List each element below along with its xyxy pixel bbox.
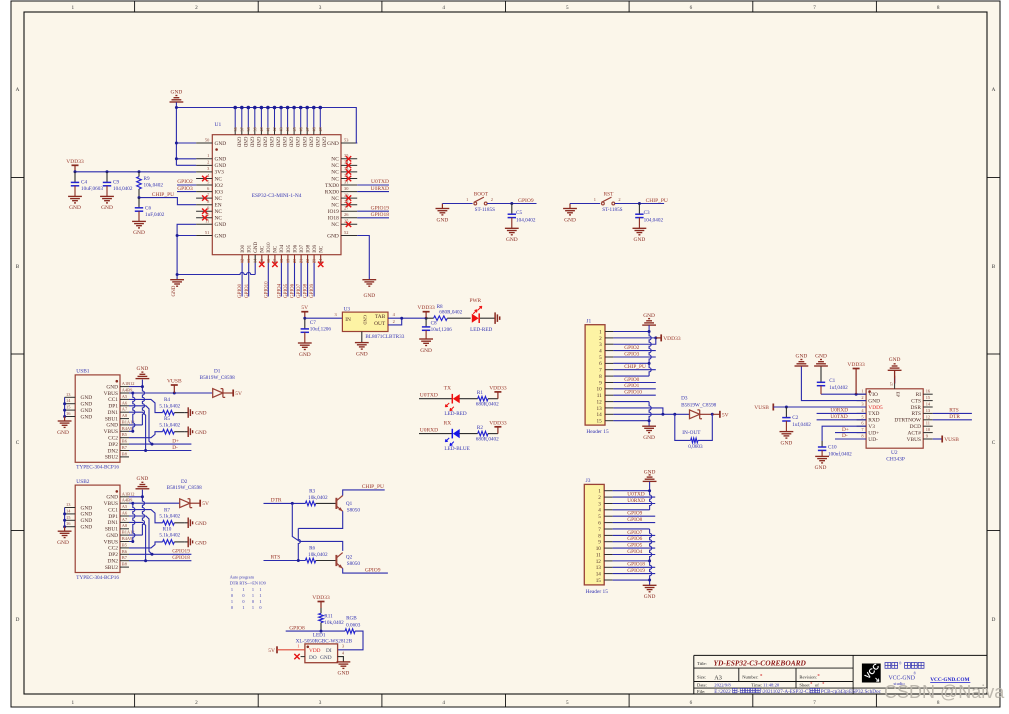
resistor RGB [345, 629, 355, 634]
svg-text:1: 1 [72, 5, 75, 11]
net label GPIO4 wire at J3 [613, 554, 656, 556]
svg-text:31: 31 [344, 179, 348, 184]
svg-text:RI: RI [916, 392, 922, 398]
ground C9 [106, 195, 108, 197]
svg-text:6: 6 [599, 361, 602, 367]
svg-text:12: 12 [596, 559, 602, 565]
svg-text:GND: GND [215, 163, 227, 169]
net label GPIO18 wire at J3 [613, 566, 656, 568]
svg-text:*: * [760, 674, 763, 680]
svg-text:GND: GND [363, 293, 375, 299]
svg-text:0: 0 [231, 605, 233, 610]
svg-text:GND: GND [643, 435, 655, 441]
svg-text:A5: A5 [122, 504, 128, 509]
svg-text:VDD: VDD [309, 648, 321, 654]
svg-text:B5819W_C8598: B5819W_C8598 [167, 485, 203, 491]
svg-text:GPIO6: GPIO6 [627, 536, 642, 542]
net label GPIO1 wire at J1 [613, 388, 655, 390]
ground USB2 left [64, 527, 66, 532]
svg-text:VDD33: VDD33 [489, 420, 507, 426]
J1 pins [605, 331, 613, 333]
svg-text:GPIO0: GPIO0 [238, 283, 243, 298]
svg-text:SBU1: SBU1 [105, 527, 118, 533]
svg-text:File:: File: [697, 689, 705, 694]
svg-text:10k,0402: 10k,0402 [308, 552, 328, 558]
svg-text:5.1k,0402: 5.1k,0402 [159, 514, 180, 520]
diode D3 B5819W_C8598 [690, 410, 700, 419]
svg-text:E:\2022: E:\2022 [714, 689, 731, 695]
svg-text:CC1: CC1 [108, 507, 118, 513]
svg-text:GPIO2: GPIO2 [624, 345, 639, 351]
svg-text:GND: GND [242, 137, 247, 148]
svg-text:B6: B6 [122, 439, 128, 444]
svg-text:R7: R7 [164, 507, 170, 513]
wire J1 GND rail top [649, 325, 651, 376]
svg-text:U0RXD: U0RXD [627, 498, 645, 504]
svg-text:GND: GND [327, 141, 339, 147]
switch RST ST-1185S [570, 203, 600, 205]
svg-text:10uf,1206: 10uf,1206 [431, 326, 453, 333]
svg-text:*: * [817, 674, 820, 680]
svg-text:2: 2 [618, 197, 620, 202]
svg-text:VUSB: VUSB [167, 379, 182, 385]
LED PWR LED-RED [447, 317, 470, 319]
svg-text:GPIO10: GPIO10 [624, 390, 642, 396]
svg-text:-: - [738, 689, 740, 695]
ground flag R4 [184, 412, 188, 414]
svg-text:GPIO8: GPIO8 [627, 517, 642, 523]
svg-text:40: 40 [259, 127, 264, 131]
svg-text:D-: D- [172, 445, 178, 451]
svg-text:GND: GND [281, 137, 286, 148]
svg-text:8: 8 [598, 533, 601, 539]
LED TX LED-RED [453, 394, 460, 403]
net label GPIO8 wire [286, 630, 345, 632]
svg-text:GPIO6: GPIO6 [291, 283, 296, 298]
ruler column ticks and numbers [134, 1, 136, 12]
svg-text:GPIO19: GPIO19 [371, 205, 390, 211]
svg-text:1: 1 [259, 587, 261, 592]
svg-text:GND: GND [781, 440, 793, 446]
svg-text:D-: D- [842, 433, 848, 439]
svg-text:GPIO19: GPIO19 [627, 568, 645, 574]
svg-text:DN1: DN1 [108, 410, 119, 416]
svg-text:GND: GND [320, 655, 332, 661]
wire U2 GND pin2 [801, 366, 866, 401]
svg-text:NC: NC [215, 216, 223, 222]
capacitor C10 [821, 441, 823, 447]
wire PWR LED to ground flag [480, 317, 495, 319]
net label U0TXD wire at U1 [357, 184, 389, 186]
svg-text:NC: NC [331, 176, 339, 182]
svg-text:13: 13 [246, 259, 251, 263]
svg-text:IN-OUT: IN-OUT [682, 430, 701, 436]
USB2 left GND pins [65, 507, 76, 509]
wire Q1 emitter to RTS [298, 511, 342, 528]
svg-text:C1: C1 [829, 378, 835, 384]
svg-text:of: of [815, 683, 819, 688]
svg-text:IO6: IO6 [293, 244, 298, 252]
wire VUSB to diode D1 [133, 392, 213, 394]
svg-text:SBU2: SBU2 [105, 565, 118, 571]
svg-text:A6: A6 [122, 511, 128, 516]
svg-text:3: 3 [599, 342, 602, 348]
svg-text:GND: GND [301, 137, 306, 148]
op-amp U2 body CH343P [866, 389, 923, 448]
svg-text:Revision:: Revision: [799, 675, 817, 680]
svg-text:22: 22 [305, 259, 310, 263]
svg-text:NC: NC [331, 157, 339, 163]
svg-text:GND: GND [215, 157, 227, 163]
svg-text:2: 2 [195, 700, 198, 706]
svg-text:ST-1185S: ST-1185S [475, 207, 495, 213]
svg-text:GND: GND [106, 495, 118, 501]
svg-text:1: 1 [231, 599, 233, 604]
transistor Q2 S8050 [335, 555, 337, 566]
ground C2 [785, 431, 787, 433]
svg-text:7: 7 [598, 527, 601, 533]
net label GPIO18 wire at U1 [357, 217, 389, 219]
svg-text:13: 13 [596, 565, 602, 571]
svg-text:GND: GND [81, 518, 93, 524]
svg-text:D+: D+ [172, 439, 179, 445]
resistor R7 [163, 521, 175, 526]
svg-text:DCD: DCD [910, 424, 921, 430]
svg-text:GND: GND [171, 89, 183, 95]
svg-text:5: 5 [599, 355, 602, 361]
U2 left pins [857, 393, 867, 395]
svg-text:GND: GND [363, 315, 368, 325]
svg-text:IO19: IO19 [328, 209, 339, 215]
svg-text:10k,0402: 10k,0402 [144, 183, 164, 189]
svg-text:GPIO18: GPIO18 [172, 555, 190, 561]
svg-text:NC: NC [331, 163, 339, 169]
svg-text:18: 18 [279, 259, 284, 263]
svg-text:GPIO1: GPIO1 [624, 383, 639, 389]
net label D- wire at U2 [835, 438, 866, 440]
svg-text:10uf,1206: 10uf,1206 [310, 326, 332, 333]
power port VDD33 at RX LED [497, 427, 499, 434]
svg-text:C4: C4 [81, 180, 87, 186]
svg-text:4: 4 [442, 5, 445, 11]
wire U1 pin52 to ground [357, 236, 369, 280]
wire DP1 jog to GPIO19 [129, 516, 152, 554]
wire J1 pin2 pin3 VDD33 [613, 338, 655, 344]
net label U0TXD wire at U2 [817, 419, 867, 421]
wire USB2 GND rail [142, 490, 144, 535]
ground U1 bottom-left [176, 279, 178, 281]
power port VDD33 left [74, 165, 76, 172]
power port 5V at regulator [304, 312, 306, 319]
svg-text:IO4: IO4 [280, 244, 285, 252]
svg-text:DSR: DSR [911, 405, 922, 411]
svg-text:GPIO3: GPIO3 [177, 186, 193, 192]
svg-text:VDD33: VDD33 [847, 362, 865, 368]
svg-text:A3: A3 [714, 674, 722, 681]
svg-text:2022/9/8: 2022/9/8 [714, 683, 731, 688]
svg-text:USB2: USB2 [76, 479, 89, 485]
power port VDD33 at R11 [320, 602, 322, 609]
svg-text:TXD0: TXD0 [325, 183, 339, 189]
svg-text:R11: R11 [324, 613, 333, 619]
svg-text:S8050: S8050 [347, 508, 361, 514]
svg-text:VBUS: VBUS [907, 437, 921, 443]
svg-text:C2: C2 [792, 415, 798, 421]
svg-text:46: 46 [298, 127, 303, 131]
LED RX LED-BLUE [453, 429, 460, 438]
svg-text:GPIO3: GPIO3 [624, 351, 639, 357]
svg-text:RXD0: RXD0 [325, 189, 339, 195]
svg-text:U0RXD: U0RXD [420, 428, 438, 434]
svg-text:2: 2 [393, 319, 395, 324]
svg-text:GND: GND [57, 430, 69, 436]
svg-text:A8: A8 [122, 523, 128, 528]
wire CC1 to R7 [129, 510, 163, 523]
capacitor C2 [785, 407, 787, 418]
svg-text:IO8: IO8 [306, 244, 311, 252]
power port VDD33 at TX LED [497, 392, 499, 399]
power port 5V at LED1 [276, 646, 278, 653]
svg-text:GND: GND [307, 137, 312, 148]
svg-text:D+: D+ [842, 427, 849, 433]
svg-text:TYPEC-304-BCP16: TYPEC-304-BCP16 [76, 465, 119, 471]
svg-text:1: 1 [599, 329, 602, 335]
svg-text:1uf,0402: 1uf,0402 [792, 421, 811, 428]
power port VDD33 at J1 [660, 334, 662, 341]
svg-text:10: 10 [596, 546, 602, 552]
svg-text:TXD: TXD [868, 411, 879, 417]
svg-text:VBUS: VBUS [104, 429, 118, 435]
svg-text:1: 1 [594, 197, 596, 202]
svg-text:5V: 5V [235, 391, 242, 397]
resistor R2 [460, 433, 478, 435]
net label U0RXD wire at U2 [817, 412, 867, 414]
svg-text:12: 12 [597, 400, 603, 406]
net label RTS wire [264, 560, 306, 562]
svg-text:C7: C7 [310, 320, 316, 326]
svg-text:GPIO5: GPIO5 [284, 283, 289, 298]
ground U2 EP [894, 370, 896, 378]
net label GPIO2 wire at J1 [613, 350, 655, 352]
svg-text:GPIO18: GPIO18 [371, 212, 390, 218]
svg-text:GND: GND [868, 398, 880, 404]
net label GPIO19 wire at J3 [613, 573, 656, 575]
net label U0RXD wire at J3 [613, 503, 656, 505]
svg-text:RTS: RTS [911, 411, 921, 417]
svg-text:14: 14 [596, 572, 602, 578]
resistor R4 [163, 410, 175, 415]
svg-text:GND: GND [437, 217, 449, 223]
svg-text:48: 48 [311, 127, 316, 131]
ground C4 [74, 195, 76, 197]
svg-text:R6: R6 [309, 546, 315, 552]
wire USB2 VBUS rail [133, 503, 135, 541]
svg-text:41: 41 [266, 127, 271, 131]
svg-text:GPIO19: GPIO19 [172, 549, 190, 555]
svg-text:GND: GND [101, 205, 113, 211]
svg-text:GPIO4: GPIO4 [627, 549, 642, 555]
svg-text:LED-BLUE: LED-BLUE [444, 446, 469, 452]
wire V3 to C10 [822, 426, 866, 441]
svg-text:2: 2 [861, 395, 863, 400]
wire J3 GND rail top [650, 482, 652, 510]
wire Q1 collector to CHIP_PU [343, 490, 385, 496]
svg-text:DO: DO [309, 655, 317, 661]
svg-text:15: 15 [597, 419, 603, 425]
svg-text:B: B [992, 264, 996, 270]
svg-text:D2: D2 [181, 479, 188, 485]
switch BOOT ST-1185S [442, 203, 472, 205]
wire VIO VDD33 C1 [821, 393, 866, 395]
svg-text:IO9: IO9 [313, 244, 318, 252]
svg-text:B4A9: B4A9 [122, 536, 133, 541]
ground flag R5 [184, 431, 188, 433]
svg-text:B4A9: B4A9 [122, 426, 133, 431]
svg-text:1: 1 [242, 605, 244, 610]
svg-text:GND: GND [815, 354, 827, 360]
capacitor C3 [638, 204, 640, 215]
svg-text:Time:: Time: [751, 683, 762, 688]
title block grid [694, 654, 987, 656]
wire U1 bottom-left GND rail [177, 224, 255, 279]
svg-text:IO1: IO1 [248, 244, 253, 252]
svg-text:RGB: RGB [346, 616, 357, 622]
svg-text:DP1: DP1 [108, 404, 118, 410]
svg-text:8: 8 [937, 5, 940, 11]
svg-text:NC: NC [331, 203, 339, 209]
svg-text:NC: NC [331, 170, 339, 176]
svg-text:GND: GND [327, 233, 339, 239]
svg-text:DTR: DTR [271, 498, 282, 504]
connector J3 Header 15 body [584, 484, 604, 585]
svg-text:0: 0 [242, 593, 244, 598]
wire U1 top GND bus [176, 102, 357, 165]
svg-text:GND: GND [215, 233, 227, 239]
svg-text:DTR RTS-->EN IO9: DTR RTS-->EN IO9 [230, 581, 266, 586]
svg-text:GND: GND [420, 348, 432, 354]
svg-text:USB1: USB1 [76, 369, 89, 375]
svg-text:NC: NC [215, 196, 223, 202]
capacitor C7 [304, 318, 306, 329]
svg-text:7: 7 [813, 700, 816, 706]
svg-text:GND: GND [314, 137, 319, 148]
svg-text:U0TXD: U0TXD [371, 179, 389, 185]
wire 5V to LED1 VDD [277, 649, 305, 651]
wire J1 pin13 to pin14 net [613, 408, 663, 414]
ground USB1 left [64, 417, 66, 422]
wire J1 GND rail bottom [649, 402, 651, 427]
svg-text:C9: C9 [113, 180, 119, 186]
svg-text:BL8071CLBTR33: BL8071CLBTR33 [365, 334, 404, 340]
svg-text:GPIO10: GPIO10 [264, 281, 269, 298]
svg-text:IO10: IO10 [267, 242, 272, 253]
svg-text:2: 2 [491, 197, 493, 202]
svg-text:5V: 5V [268, 648, 275, 654]
resistor R9 [138, 172, 140, 177]
svg-text:D1: D1 [214, 369, 221, 375]
svg-text:1: 1 [72, 700, 75, 706]
svg-text:A4B9: A4B9 [122, 388, 133, 393]
svg-text:GND: GND [564, 217, 576, 223]
svg-text:7: 7 [813, 5, 816, 11]
svg-text:104,0402: 104,0402 [644, 218, 664, 224]
net label GPIO19 wire at U1 [357, 210, 389, 212]
svg-text:U1: U1 [215, 122, 222, 128]
svg-text:RTS: RTS [271, 555, 281, 561]
ruler row ticks and letters [11, 177, 24, 179]
svg-text:GND: GND [81, 525, 93, 531]
net label GPIO0 wire at J1 [613, 382, 655, 384]
wire USB1 VBUS rail [133, 393, 135, 431]
svg-text:A1B12: A1B12 [122, 381, 135, 386]
svg-text:21: 21 [299, 259, 304, 263]
U1 bottom pins [241, 255, 243, 263]
svg-text:GND: GND [299, 352, 311, 358]
svg-text:VUSB: VUSB [944, 437, 959, 443]
resistor R1 [460, 398, 478, 400]
svg-text:VDD33: VDD33 [66, 159, 84, 165]
svg-text:11: 11 [596, 552, 601, 558]
net label D+ wire at U2 [835, 432, 866, 434]
ground C1 [814, 360, 828, 367]
svg-text:B6: B6 [122, 549, 128, 554]
svg-text:1: 1 [231, 587, 233, 592]
svg-text:VBUS: VBUS [104, 539, 118, 545]
svg-text:10uF,0603: 10uF,0603 [81, 186, 103, 192]
svg-text:ESP32-C3-MINI-1-N4: ESP32-C3-MINI-1-N4 [252, 193, 302, 199]
LED LED1 XL-5050RGBC-WS2812B [305, 644, 338, 663]
net label CHIP_PU wire at J1 [613, 369, 655, 371]
wire VUSB to VDD5 [773, 406, 866, 408]
wire USB1 GND rail [142, 380, 144, 425]
wire U1 top pin stubs to bus [234, 107, 236, 109]
transistor Q1 S8050 [335, 498, 337, 509]
svg-text:1: 1 [466, 197, 468, 202]
svg-text:VUSB: VUSB [754, 405, 769, 411]
svg-text:GND: GND [815, 465, 827, 471]
svg-text:DI: DI [326, 648, 332, 654]
svg-text:A6: A6 [122, 400, 128, 405]
svg-text:GND: GND [57, 540, 69, 546]
svg-text:U0RXD: U0RXD [371, 186, 389, 192]
svg-text:NC: NC [261, 245, 266, 253]
wire DN1 jog to GPIO18 [129, 522, 146, 560]
wire CHIP_PU to EN pin [139, 198, 196, 205]
svg-text:GPIO4: GPIO4 [278, 283, 283, 298]
svg-text:R10: R10 [163, 526, 172, 532]
svg-text:42: 42 [272, 127, 277, 131]
wire GPIO nets U1 bottom [241, 263, 243, 297]
diode D2 B5819W_C8598 [180, 499, 190, 508]
svg-text:IO0: IO0 [241, 244, 246, 252]
svg-text:C6: C6 [145, 206, 151, 212]
svg-text:CHIP_PU: CHIP_PU [646, 198, 668, 204]
svg-text:GND: GND [106, 384, 118, 390]
svg-text:16: 16 [266, 259, 271, 263]
svg-text:GND: GND [338, 670, 350, 676]
net label GPIO7 wire at J3 [613, 534, 656, 536]
svg-text:R2: R2 [477, 425, 483, 431]
U1 left pins [196, 158, 212, 160]
ground flag R7 [184, 522, 188, 524]
capacitor C6 [138, 198, 140, 208]
svg-text:5V: 5V [722, 412, 729, 418]
ground C6 [138, 220, 140, 222]
svg-text:NC: NC [320, 245, 325, 253]
svg-text:GND: GND [81, 402, 93, 408]
resistor R6 [305, 558, 315, 563]
svg-text:DTRTNOW: DTRTNOW [894, 418, 922, 424]
